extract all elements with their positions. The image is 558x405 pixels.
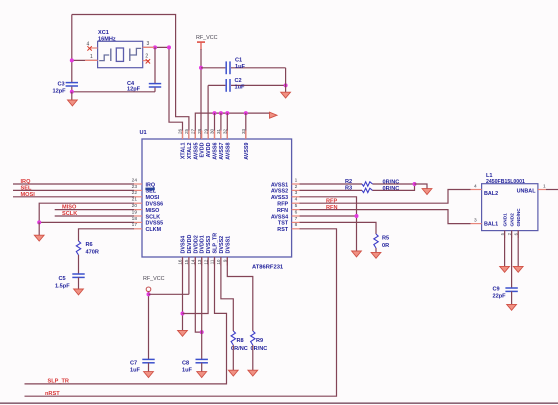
- wire GND1 down: [504, 231, 506, 267]
- svg-text:C9: C9: [493, 287, 500, 293]
- ground below R8: [228, 370, 238, 376]
- svg-text:23: 23: [132, 184, 138, 190]
- capacitor C9 22pF: [505, 287, 517, 289]
- ground below C3: [71, 92, 73, 100]
- svg-text:30: 30: [210, 128, 215, 134]
- node: C2 ground junction: [284, 83, 288, 87]
- ground below C5: [74, 289, 84, 295]
- wire net MISO: [55, 209, 134, 211]
- wire DVSS3 join: [183, 257, 209, 314]
- wire R6 to C5: [78, 255, 80, 274]
- right pin stubs U1: [292, 183, 301, 185]
- svg-text:IRQ: IRQ: [21, 179, 32, 185]
- svg-text:EVDD: EVDD: [200, 142, 206, 157]
- svg-text:SLP_TR: SLP_TR: [213, 233, 219, 254]
- node: C4 tap junction: [153, 45, 157, 49]
- wire TST to R5: [300, 222, 376, 234]
- page border bottom: [0, 402, 558, 404]
- ground below R9: [248, 370, 258, 376]
- bottom pin stubs U1: [182, 257, 184, 266]
- wire CLKM to R6: [79, 229, 135, 241]
- svg-text:1uF: 1uF: [182, 367, 193, 373]
- svg-text:GND/NC: GND/NC: [516, 208, 521, 227]
- svg-text:AVSS4: AVSS4: [271, 214, 288, 220]
- svg-text:2450FB15L0001: 2450FB15L0001: [486, 179, 525, 185]
- svg-text:IRQ: IRQ: [146, 182, 156, 188]
- svg-text:R9: R9: [256, 338, 263, 344]
- node: C3 ground junction: [70, 90, 74, 94]
- wire R3 up to junction: [373, 184, 415, 190]
- wire: AVSS7 riser: [220, 113, 222, 139]
- svg-text:21: 21: [132, 197, 138, 203]
- wire RST down to nRST: [25, 229, 337, 396]
- pin 1 stub XC1: [85, 59, 98, 61]
- svg-text:470R: 470R: [86, 249, 99, 255]
- wire net SCLK: [55, 215, 134, 217]
- wire: AVSS9 riser: [245, 113, 247, 139]
- wire R2 to junction: [373, 183, 415, 185]
- node: xtal pin3 corner junction: [167, 45, 171, 49]
- wire RF_VCC to DEVDD: [149, 293, 189, 295]
- capacitor C8 1uF: [196, 358, 208, 360]
- svg-text:UNBAL: UNBAL: [517, 188, 537, 194]
- wire DVDD1 to C8: [201, 257, 203, 359]
- svg-text:AVSS2: AVSS2: [271, 189, 288, 195]
- svg-text:22: 22: [132, 190, 138, 196]
- ground below C9: [507, 304, 517, 310]
- svg-text:1.5pF: 1.5pF: [55, 283, 70, 289]
- wire DEVDD down: [188, 257, 190, 294]
- svg-text:4: 4: [295, 197, 298, 203]
- svg-text:3: 3: [474, 217, 477, 223]
- svg-text:SEL: SEL: [21, 185, 32, 191]
- ground GND/NC: [513, 266, 523, 272]
- wire net SEL: [13, 189, 134, 191]
- svg-text:AVSS5: AVSS5: [193, 143, 199, 160]
- capacitor C4: [154, 47, 156, 83]
- svg-text:2: 2: [145, 54, 148, 60]
- svg-text:27: 27: [191, 128, 196, 134]
- svg-text:31: 31: [216, 128, 221, 134]
- wire AVSS4 join: [300, 215, 357, 217]
- node: AVSS9 rail tap: [244, 111, 248, 115]
- svg-text:DEVDD: DEVDD: [187, 235, 193, 254]
- capacitor C5 1.5pF: [72, 273, 84, 275]
- svg-text:DVSS1: DVSS1: [225, 236, 231, 254]
- ground AVSS3/AVSS4: [352, 251, 362, 257]
- wire: top loop XTAL2: [72, 15, 189, 140]
- svg-text:DVDD2: DVDD2: [193, 235, 199, 253]
- wire: C3/C4 ground rail: [72, 91, 155, 93]
- node: AVSS8 rail tap: [225, 111, 229, 115]
- selection highlight on SEL pin name: [145, 188, 154, 191]
- wire DVDD2 join DVDD1: [195, 257, 201, 332]
- wire GND2 to C9: [511, 231, 513, 288]
- resistor R2 0R/NC: [362, 182, 373, 186]
- svg-text:0R: 0R: [382, 243, 389, 249]
- node: C1 tap: [199, 66, 203, 70]
- svg-text:3: 3: [147, 41, 150, 47]
- capacitor C3: [71, 81, 73, 83]
- svg-text:12pF: 12pF: [53, 88, 67, 94]
- svg-text:DVSS6: DVSS6: [146, 202, 164, 208]
- svg-text:18: 18: [132, 216, 138, 222]
- svg-text:4: 4: [474, 183, 477, 189]
- svg-text:DVSS4: DVSS4: [181, 236, 187, 254]
- wire net SLP_TR: [25, 257, 227, 384]
- svg-text:26: 26: [178, 128, 183, 134]
- svg-text:SCLK: SCLK: [146, 214, 161, 220]
- wire AVSS1 to R2: [300, 183, 362, 185]
- svg-text:SCLK: SCLK: [62, 211, 77, 217]
- svg-text:DVSS3: DVSS3: [206, 236, 212, 254]
- svg-text:AT86RF231: AT86RF231: [252, 265, 284, 271]
- ground below C8: [197, 372, 207, 378]
- svg-text:AVSS9: AVSS9: [244, 142, 250, 159]
- svg-text:TST: TST: [278, 221, 289, 227]
- wire net RFN to BAL1: [300, 210, 471, 224]
- svg-text:AVSS8: AVSS8: [225, 143, 231, 160]
- svg-text:AVSS3: AVSS3: [271, 195, 288, 201]
- svg-text:1: 1: [295, 177, 298, 183]
- pin 1 stub UNBAL: [538, 189, 546, 191]
- resistor R3 0R/NC: [362, 188, 373, 192]
- node DVSS5/DVSS6 junction: [37, 220, 41, 224]
- wire DVSS5 to ground: [39, 221, 134, 223]
- resistor R8 0R/NC: [231, 331, 235, 345]
- inductor/balun L1 2450FB15L0001: [482, 184, 538, 231]
- top pin stubs U1: [182, 131, 184, 140]
- wire: AVSS top rail: [195, 113, 269, 139]
- wire: AVSS6 riser: [214, 113, 216, 139]
- svg-text:RFP: RFP: [326, 198, 337, 204]
- wire net IRQ: [13, 183, 134, 185]
- wire AVSS3 down: [300, 197, 357, 251]
- wire net MOSI: [13, 196, 134, 198]
- svg-text:1uF: 1uF: [235, 64, 246, 70]
- svg-text:C7: C7: [130, 360, 137, 366]
- pin 3 stub BAL1: [471, 223, 482, 225]
- node DVDD1/DVDD2 junction: [200, 330, 204, 334]
- wire DVSS1 to R9: [227, 257, 253, 331]
- svg-text:6: 6: [295, 209, 298, 215]
- svg-text:RFN: RFN: [277, 208, 288, 214]
- wire: crystal pin3 to XTAL1 riser: [143, 47, 183, 139]
- svg-text:MISO: MISO: [146, 208, 160, 214]
- wire RF_VCC down to C7: [148, 292, 150, 359]
- svg-text:GND1: GND1: [503, 213, 509, 227]
- node DVSS4/DVSS3 junction: [181, 312, 185, 316]
- svg-text:1: 1: [543, 183, 546, 189]
- svg-text:R2: R2: [345, 179, 352, 185]
- svg-text:BAL1: BAL1: [484, 221, 498, 227]
- svg-text:AVSS6: AVSS6: [213, 143, 219, 160]
- svg-text:AVDD: AVDD: [206, 142, 212, 157]
- wire DVSS2 to R8: [221, 257, 233, 331]
- svg-text:RF_VCC: RF_VCC: [143, 276, 165, 282]
- wire: crystal left vertical to C3: [71, 15, 73, 81]
- pin stubs L1 bottom: [504, 231, 506, 238]
- svg-text:C3: C3: [58, 82, 65, 88]
- svg-text:8: 8: [295, 222, 298, 228]
- svg-text:C5: C5: [59, 276, 66, 282]
- capacitor C1: [201, 67, 225, 69]
- svg-text:MOSI: MOSI: [21, 192, 36, 198]
- pin 2 stub XC1 no-connect: [143, 60, 150, 62]
- svg-text:19: 19: [132, 209, 138, 215]
- ground for C1/C2: [285, 68, 287, 92]
- svg-text:7: 7: [295, 216, 298, 222]
- svg-text:MISO: MISO: [62, 205, 77, 211]
- ground below C7: [144, 372, 154, 378]
- svg-text:32: 32: [223, 128, 228, 134]
- wire: AVSS8 riser: [226, 113, 228, 139]
- svg-text:20: 20: [132, 203, 138, 209]
- wire DVSS4 to ground: [182, 257, 184, 330]
- svg-text:24: 24: [132, 177, 138, 183]
- pin 3 stub XC1: [143, 46, 154, 48]
- svg-text:SLP_TR: SLP_TR: [48, 378, 69, 384]
- svg-text:AVSS7: AVSS7: [219, 143, 225, 160]
- svg-text:DVSS5: DVSS5: [146, 221, 164, 227]
- node: AVSS7 rail tap: [219, 111, 223, 115]
- svg-text:3: 3: [295, 190, 298, 196]
- svg-text:22pF: 22pF: [493, 293, 507, 299]
- svg-text:RST: RST: [277, 227, 288, 233]
- svg-text:33: 33: [241, 128, 246, 134]
- svg-text:17: 17: [132, 222, 138, 228]
- svg-text:GND2: GND2: [510, 213, 516, 227]
- svg-text:29: 29: [203, 128, 208, 134]
- wire: RF_VCC to EVDD: [200, 49, 202, 139]
- svg-text:R6: R6: [86, 242, 93, 248]
- resistor R9 0R/NC: [251, 331, 255, 345]
- svg-text:XC1: XC1: [98, 30, 109, 36]
- ground for R2/R3: [415, 184, 428, 189]
- node AVSS3/AVSS4 junction: [355, 214, 359, 218]
- node R2/R3 junction: [413, 182, 417, 186]
- svg-text:BAL2: BAL2: [484, 191, 498, 197]
- svg-text:R5: R5: [382, 236, 389, 242]
- ground arrow right on AVSS rail: [270, 112, 278, 118]
- ground DVSS4: [178, 330, 188, 336]
- svg-text:XTAL1: XTAL1: [181, 142, 187, 159]
- left pin stubs U1: [134, 183, 143, 185]
- node RF_VCC junction: [147, 292, 151, 296]
- capacitor C7 1uF: [142, 358, 154, 360]
- svg-text:RFN: RFN: [326, 205, 338, 211]
- svg-text:R8: R8: [237, 338, 244, 344]
- svg-text:MOSI: MOSI: [146, 195, 160, 201]
- node: xtal pin1 junction: [70, 58, 74, 62]
- svg-text:nRST: nRST: [45, 391, 60, 397]
- svg-text:AVSS1: AVSS1: [271, 182, 288, 188]
- resistor R5 0R: [374, 234, 378, 248]
- wire net RFP to BAL2: [300, 190, 471, 204]
- wire UNBAL to edge: [546, 189, 558, 191]
- op IC U1 AT86RF231 body: [142, 139, 292, 257]
- ground DVSS5/DVSS6: [38, 222, 40, 235]
- crystal XC1: [98, 41, 143, 67]
- svg-text:C1: C1: [235, 57, 242, 63]
- node: AVSS6 rail tap: [213, 111, 217, 115]
- wire: crystal pin1 to vertical: [72, 59, 98, 61]
- svg-text:1uF: 1uF: [130, 367, 141, 373]
- svg-text:DVDD1: DVDD1: [200, 235, 206, 253]
- svg-text:RFP: RFP: [277, 202, 288, 208]
- ground GND1: [500, 266, 510, 272]
- svg-text:U1: U1: [140, 130, 147, 136]
- wire DVSS6 to ground: [39, 203, 134, 222]
- svg-text:1uF: 1uF: [235, 84, 246, 90]
- pin 4 stub BAL2: [471, 189, 482, 191]
- svg-text:DVSS2: DVSS2: [219, 236, 225, 254]
- capacitor C2: [207, 85, 209, 139]
- ground below R5: [371, 252, 381, 258]
- wire GND/NC down: [517, 231, 519, 267]
- svg-text:4: 4: [87, 41, 90, 47]
- svg-text:CLKM: CLKM: [146, 227, 162, 233]
- svg-text:C2: C2: [235, 78, 242, 84]
- svg-text:16MHz: 16MHz: [98, 36, 116, 42]
- svg-text:C8: C8: [182, 360, 189, 366]
- pin 4 stub XC1 no-connect: [89, 47, 98, 49]
- resistor R6 470R: [76, 241, 80, 255]
- svg-text:RF_VCC: RF_VCC: [196, 35, 218, 41]
- svg-text:2: 2: [295, 184, 298, 190]
- svg-text:R3: R3: [345, 185, 352, 191]
- svg-text:28: 28: [197, 128, 202, 134]
- svg-text:5: 5: [295, 203, 298, 209]
- wire AVSS2 to R3: [300, 189, 362, 191]
- svg-text:1: 1: [90, 54, 93, 60]
- svg-text:XTAL2: XTAL2: [187, 142, 193, 159]
- svg-text:25: 25: [184, 128, 189, 134]
